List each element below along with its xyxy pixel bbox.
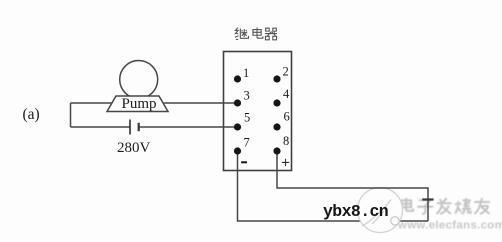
svg-text:ybx8.cn: ybx8.cn [323,202,388,221]
svg-text:(a): (a) [23,106,40,123]
svg-text:7: 7 [244,136,250,150]
svg-text:8: 8 [283,134,289,148]
svg-text:3: 3 [244,89,250,103]
svg-text:Pump: Pump [121,96,156,112]
svg-text:2: 2 [283,65,289,79]
svg-text:280V: 280V [117,140,151,156]
svg-text:5: 5 [244,111,250,125]
svg-text:4: 4 [283,87,290,101]
svg-text:6: 6 [284,110,290,124]
svg-text:1: 1 [243,66,249,80]
